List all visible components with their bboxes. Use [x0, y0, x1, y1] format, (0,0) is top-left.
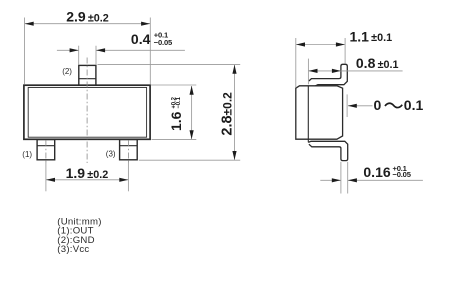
- extension line left: [45, 162, 47, 192]
- svg-text:2.8±0.2: 2.8±0.2: [220, 92, 236, 136]
- svg-text:(3):Vcc: (3):Vcc: [57, 244, 89, 255]
- lead (1) centerline: [45, 141, 47, 163]
- dimension line left segment: [320, 179, 340, 181]
- extension line left: [340, 162, 342, 194]
- svg-text:−0.05: −0.05: [393, 170, 412, 179]
- svg-text:(1): (1): [22, 150, 32, 159]
- dimension 1.1±0.1 overall thickness: [296, 28, 392, 87]
- svg-text:(2): (2): [62, 67, 72, 76]
- extension tick: [346, 94, 348, 117]
- arrowhead up: [190, 86, 194, 95]
- extension line right: [149, 18, 151, 85]
- dimension line: [234, 65, 236, 160]
- package body (side view): [296, 86, 343, 143]
- dimension 0.4 +0.1/-0.05 lead width: [57, 31, 185, 65]
- dimension line left segment: [57, 49, 79, 51]
- arrowhead right: [119, 178, 128, 182]
- dimension 1.6 +0.2/-0.1 body height: [151, 85, 197, 139]
- arrowhead left: [296, 42, 305, 46]
- dimension line: [296, 44, 345, 46]
- arrowhead pointing right: [332, 178, 341, 182]
- arrowhead left: [25, 22, 34, 26]
- svg-text:0.1: 0.1: [404, 97, 424, 113]
- dimension 2.8±0.2 overall height: [98, 65, 241, 161]
- extension line right: [347, 162, 349, 194]
- extension line right: [95, 46, 97, 65]
- lead (1) bottom-left, front view: [37, 140, 55, 160]
- dimension line right segment: [96, 49, 185, 51]
- lead (3) centerline: [127, 141, 129, 163]
- package body (front view): [24, 85, 150, 139]
- arrowhead right: [332, 69, 341, 73]
- package vertical centerline: [86, 58, 88, 164]
- arrowhead down: [190, 130, 194, 139]
- svg-text:1.6: 1.6: [168, 111, 184, 131]
- leader line: [348, 105, 373, 107]
- extension line right: [127, 162, 129, 192]
- dimension line: [309, 70, 403, 72]
- lead (3) bottom-right, front view: [120, 140, 138, 160]
- dimension line: [191, 86, 193, 139]
- arrowhead up: [232, 65, 236, 74]
- arrowhead pointing left: [96, 48, 105, 52]
- extension line right: [344, 38, 346, 64]
- extension line top: [151, 84, 197, 86]
- svg-text:0.16: 0.16: [363, 164, 390, 180]
- arrowhead pointing right: [70, 48, 79, 52]
- extension line left: [78, 46, 80, 65]
- dimension line: [46, 179, 128, 181]
- svg-text:−0.05: −0.05: [154, 38, 173, 47]
- arrowhead pointing left: [348, 178, 357, 182]
- dimension 0~0.1 lead protrusion: [347, 94, 423, 117]
- arrowhead left: [309, 69, 318, 73]
- leads (1)(3) gull-wing, side view: [308, 141, 347, 160]
- tilde glyph: [385, 103, 402, 107]
- dimension 0.16 +0.1/-0.05 lead thickness: [320, 162, 423, 194]
- lead (2) gull-wing, side view: [309, 64, 347, 86]
- arrowhead right: [336, 42, 345, 46]
- extension line left: [307, 59, 309, 85]
- dimension 0.8±0.1 body thickness: [308, 55, 402, 84]
- arrowhead right: [141, 22, 150, 26]
- svg-text:(3): (3): [106, 150, 116, 159]
- svg-text:−0.1: −0.1: [176, 96, 182, 108]
- extension line left: [295, 38, 297, 88]
- lead (2) top, front view: [79, 65, 96, 85]
- arrowhead left: [348, 104, 357, 108]
- svg-text:0: 0: [374, 97, 382, 113]
- extension line bottom: [139, 159, 240, 161]
- arrowhead down: [232, 151, 236, 160]
- extension line top: [98, 64, 241, 66]
- dimension 1.9±0.2 lead pitch: [46, 162, 128, 192]
- arrowhead left: [46, 178, 55, 182]
- extension line left: [24, 18, 26, 85]
- extension line bottom: [152, 138, 197, 140]
- dimension line: [25, 23, 150, 25]
- svg-text:0.4: 0.4: [131, 31, 151, 47]
- dimension line right segment: [348, 179, 423, 181]
- dimension 2.9±0.2 body width: [25, 9, 151, 85]
